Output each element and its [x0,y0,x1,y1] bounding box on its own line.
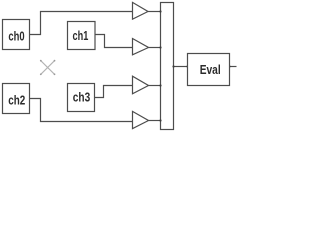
wire ch3 to buffer A3 [95,86,133,98]
junction dot mux input 2 [159,46,161,48]
buffer amplifier A1 [133,2,149,19]
block ch1 [68,22,96,50]
multiplexer [161,3,174,130]
crossing mark X (more channels) [40,60,56,75]
junction dot mux input 4 [159,119,161,121]
block ch3 [68,84,95,112]
wire ch1 to buffer A2 [95,35,133,48]
wire ch0 to buffer A1 [30,12,133,35]
junction dot Eval output [228,65,230,67]
wire mux to Eval [174,66,188,68]
buffer amplifier A3 [133,76,149,94]
buffer amplifier A2 [133,39,149,55]
block Eval [188,54,230,86]
junction dot mux input 1 [159,10,161,12]
junction dot Eval input [186,65,188,67]
wire buffer A3 to mux [149,85,161,87]
svg-text:ch3: ch3 [73,90,90,105]
junction dot mux input 3 [159,84,161,86]
block ch0 [3,20,30,50]
buffer amplifier A4 [133,111,149,128]
wire buffer A2 to mux [149,47,161,49]
block ch2 [3,84,30,114]
junction dot mux output [172,65,174,67]
wire buffer A1 to mux [148,11,161,13]
wire Eval output [230,66,237,68]
svg-text:ch0: ch0 [8,29,24,44]
wire buffer A4 to mux [149,120,161,122]
svg-text:Eval: Eval [200,62,221,77]
svg-text:ch1: ch1 [73,28,89,43]
svg-text:ch2: ch2 [8,93,25,108]
wire ch2 to buffer A4 [30,99,133,122]
